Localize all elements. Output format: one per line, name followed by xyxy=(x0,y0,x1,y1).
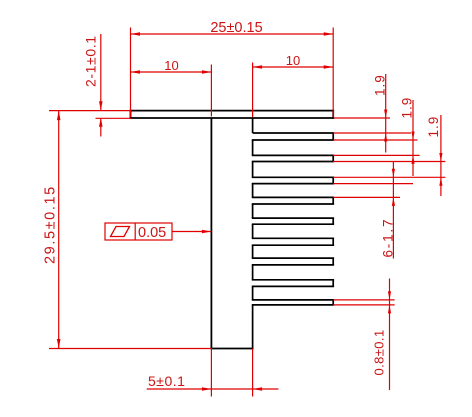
dimension 0.8±0.1: arrowhead pointing down xyxy=(388,291,391,300)
dimension 0.8±0.1: dim line xyxy=(389,279,391,391)
svg-text:0.8±0.1: 0.8±0.1 xyxy=(372,329,387,375)
fin 4 lines xyxy=(252,183,334,185)
dimension 10 right: left arrowhead xyxy=(253,65,263,68)
heatsink profile: flange left edge xyxy=(130,110,132,119)
dimension 25±0.15: left extension line xyxy=(130,28,132,118)
dimension 10 left: right extension line xyxy=(210,65,212,117)
dimension 1.9 third: lower arrowhead xyxy=(439,177,442,186)
dimension 10 left: left arrowhead xyxy=(131,70,141,73)
gap 7 right closure xyxy=(332,258,334,265)
dimension 6-1.7: arrowhead pointing up xyxy=(392,197,395,206)
dimension 1.9 second: lower arrowhead xyxy=(411,155,414,164)
dimension 6-1.7: dim line xyxy=(392,162,394,259)
dimension 29.5±0.15: bottom extension line xyxy=(49,348,212,350)
svg-text:10: 10 xyxy=(164,58,178,73)
fin2 top extension line xyxy=(333,139,417,141)
dimension 10 left: dimension line xyxy=(131,71,212,73)
dimension 5±0.1: dimension line xyxy=(147,388,279,390)
dimension 1.9 third: upper arrowhead xyxy=(439,153,442,162)
dimension 2-1±0.1: bottom extension line xyxy=(96,117,132,119)
bottom slot right closure xyxy=(332,300,334,305)
dimension 25±0.15: right arrowhead xyxy=(324,32,334,36)
dimension 10 left: right arrowhead xyxy=(202,70,212,73)
dimension 5±0.1: left outside arrowhead xyxy=(202,387,212,390)
dimension 2-1±0.1: lower dim line segment xyxy=(100,118,102,137)
dimension 1.9 first: upper arrowhead xyxy=(384,110,387,119)
dimension 25±0.15: dimension line xyxy=(131,33,334,35)
fin 5 lines xyxy=(252,203,334,205)
fin 9 lines xyxy=(252,285,334,287)
gap 4 right closure xyxy=(332,197,334,204)
flatness leader line xyxy=(172,231,211,233)
svg-text:29.5±0.15: 29.5±0.15 xyxy=(43,185,59,264)
dimension 5±0.1: right extension line xyxy=(252,349,254,397)
fin3 bottom extension line xyxy=(333,176,445,178)
svg-text:25±0.15: 25±0.15 xyxy=(210,20,262,36)
dimension 10 right: right arrowhead xyxy=(324,65,334,68)
svg-text:1.9: 1.9 xyxy=(426,116,441,138)
gap 3 right closure xyxy=(332,177,334,183)
gap 2 right closure xyxy=(332,155,334,161)
fin 2 lines xyxy=(252,139,334,141)
fin1 top extension line xyxy=(333,117,390,119)
svg-text:6-1.7: 6-1.7 xyxy=(381,218,396,258)
svg-text:5±0.1: 5±0.1 xyxy=(148,373,185,389)
heatsink profile: spine left edge xyxy=(210,118,212,349)
fin 6 lines xyxy=(252,223,334,225)
gap 8 right closure xyxy=(332,280,334,287)
heatsink profile: flange right edge xyxy=(332,110,334,119)
dimension 10 right: dimension line xyxy=(253,66,334,68)
dimension 1.9 first: dim line xyxy=(385,74,387,153)
dimension 1.9 second: upper arrowhead xyxy=(411,132,414,141)
dimension 2-1±0.1: lower arrowhead pointing up xyxy=(99,118,103,127)
dimension 1.9 first: lower arrowhead xyxy=(384,133,387,142)
dimension 1.9 second: dim line xyxy=(412,100,414,176)
flatness tolerance frame xyxy=(105,223,172,240)
heatsink profile: spine right edge below slot xyxy=(252,305,254,350)
svg-text:1.9: 1.9 xyxy=(373,74,388,96)
fin 1 lines xyxy=(253,132,335,134)
dimension 25±0.15: left arrowhead xyxy=(131,32,141,36)
fin2 bottom extension line xyxy=(333,154,419,156)
fin 8 lines xyxy=(252,264,334,266)
dimension 0.8±0.1: arrowhead pointing up xyxy=(388,305,391,314)
bottom slot lower edge xyxy=(252,304,334,306)
svg-text:1.9: 1.9 xyxy=(400,97,415,119)
heatsink profile: flange top edge xyxy=(130,110,335,112)
slot top extension line xyxy=(333,299,394,301)
fin1 bottom extension line xyxy=(333,132,411,134)
gap 6 right closure xyxy=(332,238,334,245)
svg-text:0.05: 0.05 xyxy=(138,225,166,241)
heatsink profile: flange bottom edge xyxy=(130,117,335,119)
dimension 29.5±0.15: top arrowhead xyxy=(57,111,61,121)
heatsink profile: spine bottom edge xyxy=(211,348,254,350)
dimension 2-1±0.1: upper arrowhead pointing down xyxy=(99,101,103,110)
flatness tolerance frame divider xyxy=(134,223,136,240)
fin4 bottom extension line xyxy=(333,196,400,198)
slot bottom extension line xyxy=(333,304,394,306)
svg-text:10: 10 xyxy=(286,53,300,68)
fin 3 lines xyxy=(252,161,334,163)
dimension 6-1.7: arrowhead pointing down xyxy=(392,169,395,178)
dimension 5±0.1: left extension line xyxy=(210,349,212,397)
gap 5 right closure xyxy=(332,218,334,224)
dimension 29.5±0.15: bottom arrowhead xyxy=(57,339,61,349)
svg-text:2-1±0.1: 2-1±0.1 xyxy=(83,35,99,87)
dimension 2-1±0.1: upper dim line segment xyxy=(100,34,102,110)
dimension 29.5±0.15: top extension line xyxy=(49,110,131,112)
dimension 5±0.1: right outside arrowhead xyxy=(253,387,263,390)
fin4 top extension line xyxy=(333,183,413,185)
fin 7 lines xyxy=(252,244,334,246)
flatness leader arrowhead xyxy=(202,230,212,233)
dimension 29.5±0.15: dimension line xyxy=(58,111,60,349)
dimension 25±0.15: right extension line xyxy=(332,28,334,118)
fin3 top extension line xyxy=(333,161,445,163)
dimension 1.9 third: dim line xyxy=(440,115,442,196)
gap 1 right closure xyxy=(332,133,334,140)
dimension 10 right: left extension line xyxy=(252,63,254,118)
flatness symbol parallelogram xyxy=(111,227,130,237)
